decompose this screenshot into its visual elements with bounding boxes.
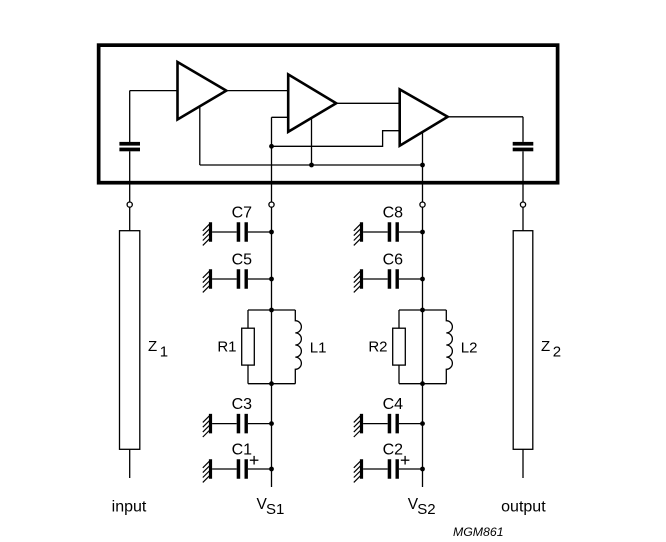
svg-text:R2: R2 xyxy=(368,339,387,356)
svg-text:Z: Z xyxy=(541,338,550,355)
svg-text:Z: Z xyxy=(148,338,157,355)
svg-text:S2: S2 xyxy=(417,501,435,518)
svg-text:MGM861: MGM861 xyxy=(453,525,504,539)
svg-text:output: output xyxy=(501,499,546,516)
svg-text:C2: C2 xyxy=(383,441,404,458)
svg-text:C4: C4 xyxy=(383,396,404,413)
svg-text:C3: C3 xyxy=(232,396,253,413)
svg-text:1: 1 xyxy=(160,344,168,361)
svg-text:C6: C6 xyxy=(383,251,404,268)
svg-text:2: 2 xyxy=(553,344,561,361)
svg-text:input: input xyxy=(112,499,147,516)
svg-text:C1: C1 xyxy=(232,441,253,458)
svg-text:L1: L1 xyxy=(310,340,327,357)
svg-text:C8: C8 xyxy=(383,204,404,221)
svg-text:S1: S1 xyxy=(266,501,284,518)
svg-text:R1: R1 xyxy=(217,339,236,356)
svg-text:C5: C5 xyxy=(232,251,253,268)
svg-text:L2: L2 xyxy=(461,340,478,357)
svg-text:C7: C7 xyxy=(232,204,253,221)
